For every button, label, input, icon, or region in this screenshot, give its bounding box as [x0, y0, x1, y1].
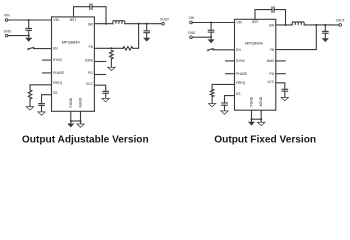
- node AGND junction: [79, 120, 81, 122]
- inductor L1: [113, 21, 125, 24]
- resistor FREQ Rfreq (fixed): [210, 89, 214, 97]
- wire AGND drop: [80, 111, 82, 124]
- resistor R2 feedback bottom: [110, 50, 114, 59]
- capacitor output C2 (fixed): [323, 25, 329, 38]
- node FB divider junction: [110, 47, 112, 49]
- wire BIAS stub (fixed): [276, 60, 285, 62]
- svg-text:FREQ: FREQ: [236, 81, 246, 85]
- node input junction (fixed): [210, 21, 212, 23]
- wire PGND drop (fixed): [251, 110, 253, 122]
- svg-text:MPQ8640: MPQ8640: [62, 40, 81, 45]
- wire BIAS stub: [94, 61, 105, 63]
- svg-text:BST: BST: [70, 18, 76, 22]
- ground power input: [25, 36, 32, 42]
- wire VCC: [94, 85, 105, 91]
- wire Rfreq to ground (fixed): [211, 97, 213, 104]
- wire PHASE stub (fixed): [226, 73, 235, 75]
- node FB tap junction: [138, 23, 140, 25]
- svg-text:VIN: VIN: [236, 21, 242, 25]
- ground power output: [143, 38, 150, 42]
- svg-text:Output Adjustable Version: Output Adjustable Version: [22, 134, 149, 145]
- svg-text:VIN: VIN: [189, 16, 195, 20]
- wire SW rail: [94, 23, 161, 25]
- wire FB direct (fixed): [276, 25, 317, 50]
- svg-text:Output Fixed Version: Output Fixed Version: [214, 134, 316, 145]
- node SW junction: [105, 23, 107, 25]
- wire gnd connector: [71, 120, 81, 122]
- wire PGND drop: [70, 111, 72, 123]
- wire PG stub (fixed): [276, 73, 285, 75]
- svg-text:SYNC: SYNC: [236, 59, 246, 63]
- svg-text:VCC: VCC: [86, 82, 94, 86]
- wire EN (fixed): [213, 49, 234, 51]
- wire FREQ (fixed): [212, 84, 234, 89]
- svg-text:PG: PG: [88, 71, 93, 75]
- capacitor SS Css: [39, 104, 45, 112]
- ground power PGND: [67, 124, 74, 128]
- ground analog VCC: [102, 98, 109, 101]
- ground analog SS: [38, 112, 45, 115]
- node output cap junction (fixed): [324, 24, 326, 26]
- capacitor VCC Cvcc: [103, 91, 109, 98]
- capacitor input C1 (fixed): [208, 23, 214, 38]
- wire PHASE stub: [43, 72, 52, 74]
- ground analog FREQ: [26, 107, 33, 110]
- wire SYNC stub: [43, 59, 52, 61]
- ground analog VCC (fixed): [281, 97, 288, 100]
- svg-text:PHASE: PHASE: [236, 72, 248, 76]
- ground analog AGND: [77, 124, 84, 127]
- capacitor SS Css (fixed): [222, 103, 228, 111]
- wire VIN to IC: [8, 19, 52, 21]
- node VOUT terminal (fixed): [336, 19, 345, 27]
- capacitor output C2: [144, 24, 150, 38]
- svg-text:BST: BST: [252, 20, 258, 24]
- wire SYNC stub (fixed): [226, 60, 235, 62]
- wire SS (fixed): [225, 96, 235, 103]
- wire BST bootstrap loop: [74, 7, 107, 24]
- svg-text:FREQ: FREQ: [53, 81, 63, 85]
- resistor R1 feedback top: [123, 47, 133, 51]
- svg-text:MPQ8640: MPQ8640: [245, 40, 264, 45]
- wire VIN to IC (fixed): [192, 22, 234, 24]
- svg-text:VCC: VCC: [267, 80, 275, 84]
- node input junction: [28, 19, 30, 21]
- svg-text:VIN: VIN: [53, 18, 59, 22]
- ground power input (fixed): [208, 37, 215, 43]
- wire GND to junction (fixed): [192, 36, 211, 38]
- wire VCC (fixed): [276, 83, 285, 90]
- wire BST bootstrap loop (fixed): [255, 10, 286, 25]
- op-amp U2 MPQ8640 (fixed) IC box: [235, 19, 276, 110]
- switch EN enable (fixed): [207, 49, 213, 52]
- wire AGND drop (fixed): [260, 110, 262, 122]
- wire FB: [94, 47, 123, 49]
- ground analog R2: [108, 67, 115, 70]
- wire PG stub: [94, 74, 105, 76]
- node SW junction (fixed): [284, 24, 286, 26]
- wire FREQ: [30, 85, 52, 90]
- node VOUT terminal (adjustable): [160, 17, 169, 25]
- node GND terminal (adjustable): [4, 29, 12, 37]
- node VIN terminal (adjustable): [4, 14, 10, 22]
- capacitor input C1: [26, 20, 32, 36]
- svg-text:PHASE: PHASE: [53, 71, 65, 75]
- svg-text:PGND: PGND: [250, 96, 254, 106]
- svg-text:AGND: AGND: [79, 97, 83, 107]
- svg-text:PGND: PGND: [69, 97, 73, 107]
- capacitor bootstrap CB (fixed): [272, 7, 274, 12]
- capacitor bootstrap CB: [90, 4, 92, 9]
- node output cap junction: [146, 23, 148, 25]
- node AGND junction (fixed): [260, 118, 262, 120]
- wire R1 to VOUT rail: [133, 24, 139, 49]
- switch EN enable: [28, 47, 34, 49]
- node GND terminal (fixed): [188, 31, 196, 39]
- node gnd junction dot (fixed): [210, 36, 212, 38]
- svg-text:GND: GND: [188, 31, 196, 35]
- ground power output (fixed): [322, 38, 329, 42]
- wire gnd connector (fixed): [252, 118, 262, 120]
- svg-text:BIAS: BIAS: [85, 58, 93, 62]
- svg-text:SYNC: SYNC: [53, 58, 63, 62]
- ground analog AGND (fixed): [258, 122, 265, 125]
- svg-text:AGND: AGND: [259, 96, 263, 106]
- svg-text:VIN: VIN: [4, 14, 10, 18]
- node VIN terminal (fixed): [189, 16, 195, 24]
- svg-text:VOUT: VOUT: [336, 19, 345, 23]
- inductor L1 (fixed): [292, 22, 304, 25]
- ground power PGND (fixed): [248, 122, 255, 126]
- node gnd junction dot: [28, 35, 30, 37]
- svg-text:VOUT: VOUT: [160, 17, 169, 21]
- svg-text:SW: SW: [88, 23, 94, 27]
- svg-text:PG: PG: [270, 72, 275, 76]
- svg-text:SW: SW: [269, 23, 275, 27]
- op-amp U1 MPQ8640 (adjustable) IC box: [52, 17, 95, 111]
- svg-text:EN: EN: [236, 48, 241, 52]
- capacitor VCC Cvcc (fixed): [282, 89, 288, 97]
- wire SW rail (fixed): [276, 24, 339, 26]
- svg-text:EN: EN: [53, 47, 58, 51]
- wire Rfreq to ground: [29, 99, 31, 107]
- node PGND junction: [70, 120, 72, 122]
- wire EN: [34, 48, 52, 50]
- node PGND junction (fixed): [250, 118, 252, 120]
- svg-text:BIAS: BIAS: [267, 59, 275, 63]
- ground analog FREQ (fixed): [208, 104, 215, 107]
- wire GND to junction: [8, 35, 29, 37]
- node FB tap junction (fixed): [315, 24, 317, 26]
- resistor FREQ Rfreq: [28, 90, 32, 99]
- wire SS: [42, 95, 52, 104]
- wire R2 to ground: [110, 59, 112, 67]
- ground analog SS (fixed): [221, 111, 228, 114]
- svg-text:GND: GND: [4, 29, 12, 33]
